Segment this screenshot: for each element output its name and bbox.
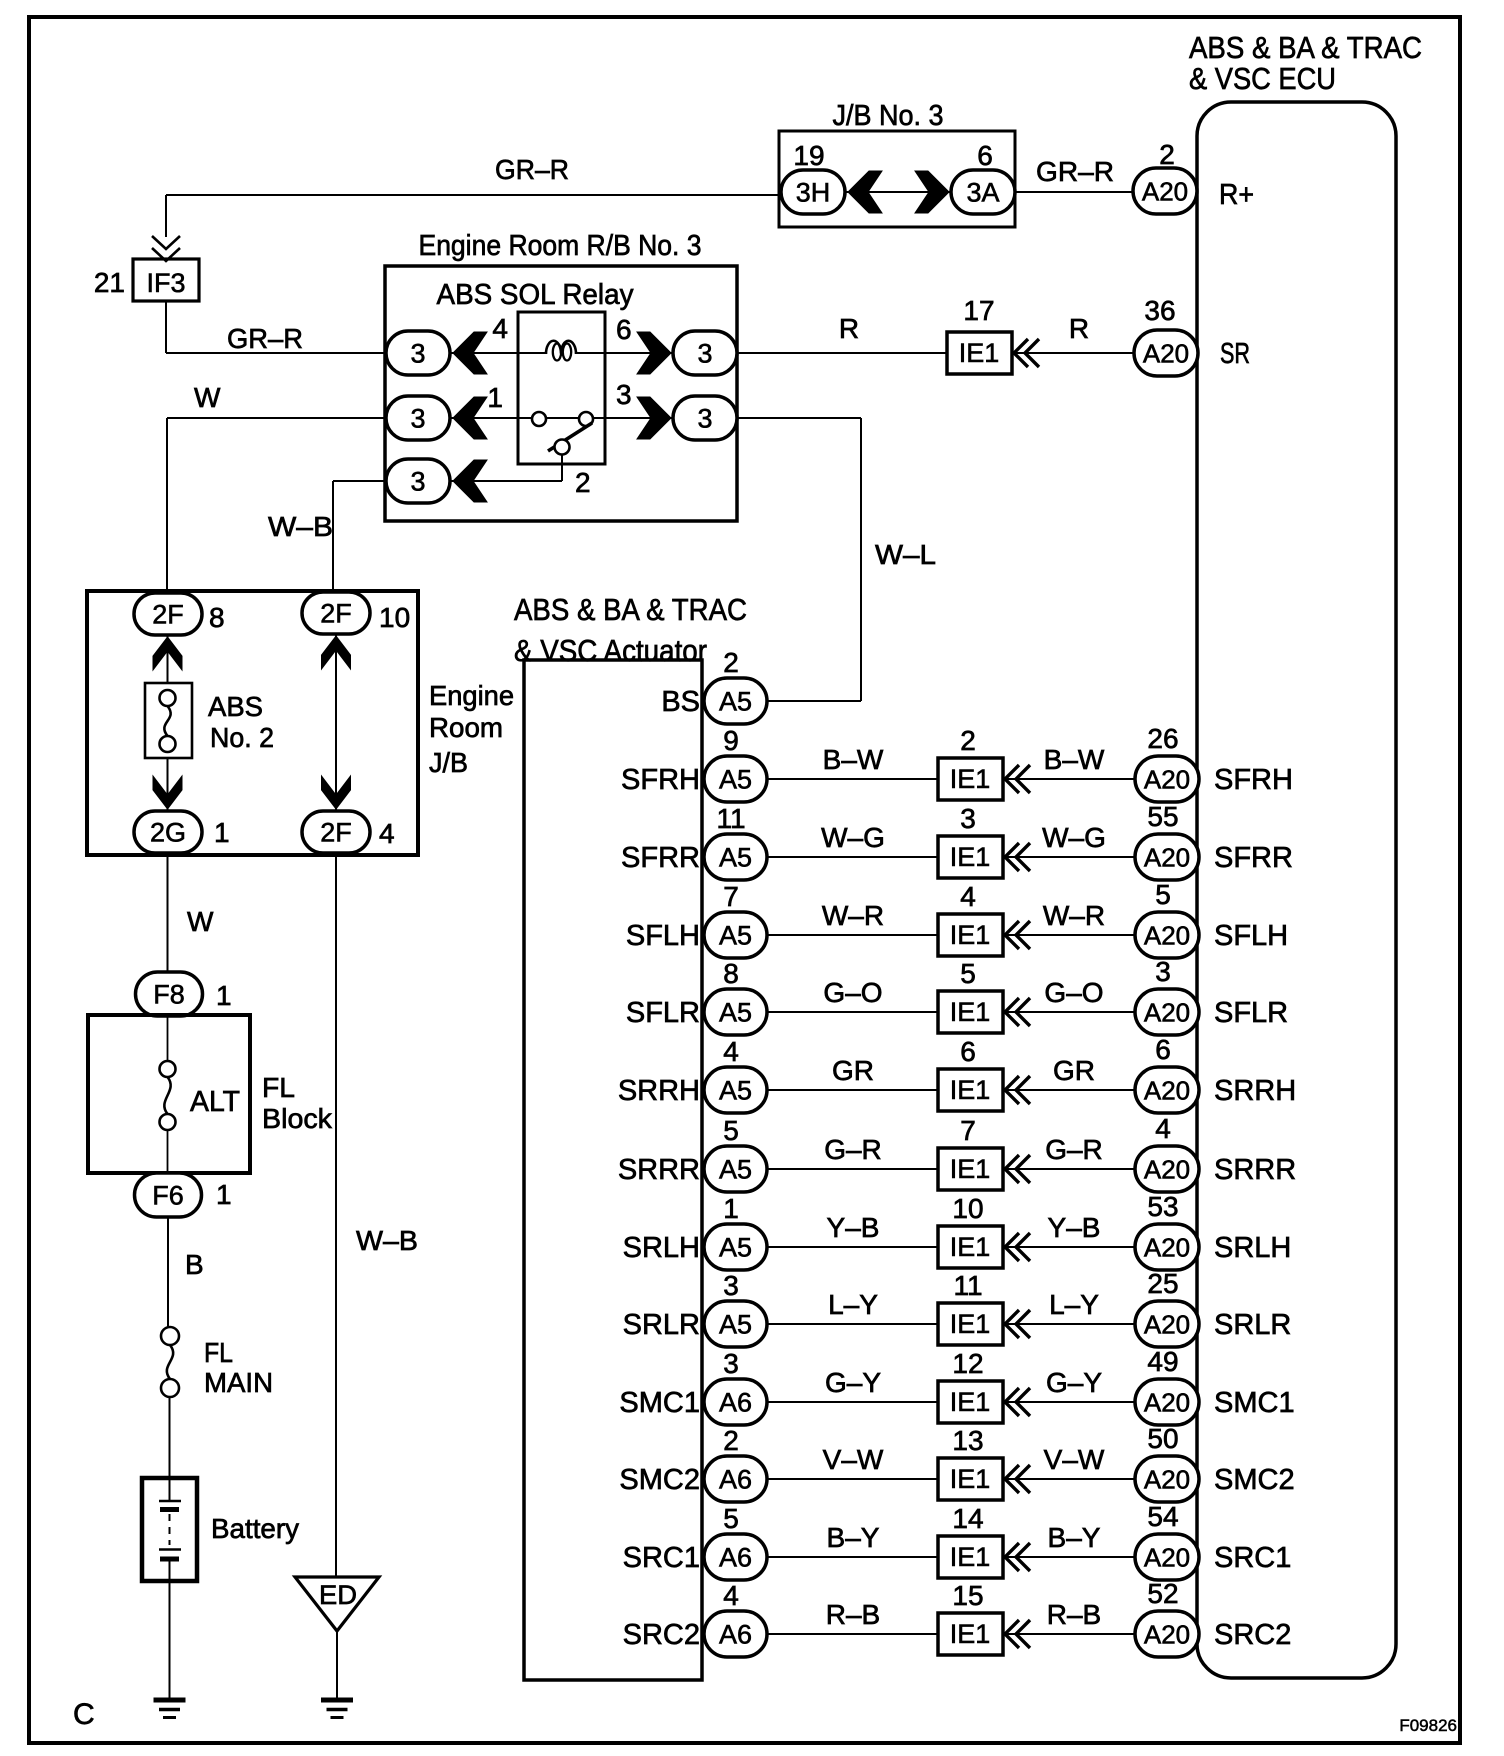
svg-text:2G: 2G xyxy=(150,818,186,848)
svg-text:3: 3 xyxy=(697,404,712,434)
svg-text:3: 3 xyxy=(723,1348,739,1379)
svg-text:J/B: J/B xyxy=(429,747,468,778)
svg-text:ED: ED xyxy=(319,1580,357,1610)
svg-text:G–O: G–O xyxy=(823,977,882,1008)
svg-text:A5: A5 xyxy=(719,998,752,1028)
svg-text:52: 52 xyxy=(1147,1578,1178,1609)
svg-text:SRC2: SRC2 xyxy=(1214,1619,1291,1651)
svg-text:A20: A20 xyxy=(1143,338,1189,368)
svg-text:MAIN: MAIN xyxy=(204,1367,273,1398)
svg-text:A6: A6 xyxy=(719,1543,752,1573)
svg-text:F6: F6 xyxy=(152,1181,184,1211)
svg-text:3H: 3H xyxy=(796,178,831,208)
svg-text:6: 6 xyxy=(616,314,632,345)
svg-text:Y–B: Y–B xyxy=(1048,1212,1101,1243)
svg-text:ABS & BA & TRAC: ABS & BA & TRAC xyxy=(514,592,747,627)
svg-text:3: 3 xyxy=(616,379,632,410)
svg-text:IE1: IE1 xyxy=(950,842,991,872)
svg-text:SFRH: SFRH xyxy=(1214,764,1293,796)
svg-text:W: W xyxy=(194,382,221,413)
svg-text:& VSC Actuator: & VSC Actuator xyxy=(514,633,707,668)
svg-text:SRLH: SRLH xyxy=(623,1232,700,1264)
svg-text:SRLH: SRLH xyxy=(1214,1232,1291,1264)
svg-text:6: 6 xyxy=(1155,1034,1171,1065)
svg-text:9: 9 xyxy=(723,725,739,756)
svg-text:A20: A20 xyxy=(1144,842,1190,872)
svg-text:A6: A6 xyxy=(719,1388,752,1418)
svg-text:36: 36 xyxy=(1144,295,1175,326)
svg-text:SRC1: SRC1 xyxy=(1214,1542,1291,1574)
svg-text:11: 11 xyxy=(716,803,745,834)
svg-text:BS: BS xyxy=(661,686,700,718)
svg-text:7: 7 xyxy=(723,881,739,912)
svg-text:A20: A20 xyxy=(1144,1075,1190,1105)
svg-text:Engine Room R/B No. 3: Engine Room R/B No. 3 xyxy=(419,230,702,262)
svg-text:10: 10 xyxy=(379,602,410,633)
svg-text:IE1: IE1 xyxy=(950,764,991,794)
svg-text:3A: 3A xyxy=(966,178,999,208)
svg-text:15: 15 xyxy=(952,1580,983,1611)
svg-text:A5: A5 xyxy=(719,1155,752,1185)
svg-text:G–R: G–R xyxy=(824,1134,882,1165)
svg-text:Block: Block xyxy=(262,1103,333,1134)
svg-text:5: 5 xyxy=(960,958,976,989)
svg-text:A20: A20 xyxy=(1144,1232,1190,1262)
svg-text:F8: F8 xyxy=(153,980,185,1010)
svg-text:W–R: W–R xyxy=(1043,900,1105,931)
svg-text:W–G: W–G xyxy=(1042,822,1106,853)
svg-text:A20: A20 xyxy=(1142,176,1188,206)
svg-text:6: 6 xyxy=(977,140,993,171)
svg-text:IE1: IE1 xyxy=(950,920,991,950)
svg-text:A20: A20 xyxy=(1144,764,1190,794)
svg-text:55: 55 xyxy=(1147,801,1178,832)
svg-text:3: 3 xyxy=(410,467,425,497)
svg-text:R+: R+ xyxy=(1219,179,1254,211)
svg-text:G–R: G–R xyxy=(1045,1134,1103,1165)
svg-text:A5: A5 xyxy=(719,687,752,717)
svg-text:SMC2: SMC2 xyxy=(1214,1464,1295,1496)
svg-text:IE1: IE1 xyxy=(950,1075,991,1105)
svg-text:W–B: W–B xyxy=(268,511,333,542)
svg-text:No. 2: No. 2 xyxy=(210,722,274,753)
svg-text:IE1: IE1 xyxy=(950,1387,991,1417)
svg-text:GR–R: GR–R xyxy=(495,154,569,185)
svg-text:Room: Room xyxy=(429,712,503,743)
svg-text:R: R xyxy=(1069,313,1089,344)
svg-text:IE1: IE1 xyxy=(950,1619,991,1649)
svg-text:GR: GR xyxy=(1053,1055,1095,1086)
svg-text:SRRH: SRRH xyxy=(1214,1075,1296,1107)
svg-text:B–W: B–W xyxy=(1044,744,1105,775)
svg-text:3: 3 xyxy=(410,404,425,434)
svg-text:W–G: W–G xyxy=(821,822,885,853)
svg-text:4: 4 xyxy=(723,1580,739,1611)
svg-text:R–B: R–B xyxy=(826,1599,880,1630)
svg-text:GR–R: GR–R xyxy=(1036,156,1114,187)
svg-text:& VSC ECU: & VSC ECU xyxy=(1189,61,1336,96)
svg-text:A20: A20 xyxy=(1144,1309,1190,1339)
svg-text:A6: A6 xyxy=(719,1465,752,1495)
svg-text:A20: A20 xyxy=(1144,1154,1190,1184)
svg-text:14: 14 xyxy=(952,1503,983,1534)
svg-text:SFRR: SFRR xyxy=(621,842,700,874)
svg-text:A6: A6 xyxy=(719,1620,752,1650)
svg-text:G–Y: G–Y xyxy=(825,1367,881,1398)
svg-text:5: 5 xyxy=(1155,879,1171,910)
svg-text:SRRR: SRRR xyxy=(1214,1154,1296,1186)
svg-text:25: 25 xyxy=(1147,1268,1178,1299)
svg-text:3: 3 xyxy=(697,339,712,369)
svg-text:6: 6 xyxy=(960,1036,976,1067)
svg-text:GR: GR xyxy=(832,1055,874,1086)
svg-text:GR–R: GR–R xyxy=(227,323,303,354)
svg-text:W–B: W–B xyxy=(356,1225,418,1256)
svg-text:17: 17 xyxy=(963,295,994,326)
svg-text:53: 53 xyxy=(1147,1191,1178,1222)
svg-text:50: 50 xyxy=(1147,1423,1178,1454)
svg-text:3: 3 xyxy=(410,339,425,369)
svg-text:1: 1 xyxy=(216,980,232,1011)
svg-text:4: 4 xyxy=(379,818,395,849)
svg-text:SFLH: SFLH xyxy=(626,920,700,952)
svg-text:B–Y: B–Y xyxy=(827,1522,880,1553)
svg-text:7: 7 xyxy=(960,1115,976,1146)
svg-text:A20: A20 xyxy=(1144,1542,1190,1572)
svg-text:A5: A5 xyxy=(719,843,752,873)
svg-text:26: 26 xyxy=(1147,723,1178,754)
svg-text:B–W: B–W xyxy=(823,744,884,775)
svg-text:1: 1 xyxy=(216,1179,232,1210)
svg-text:1: 1 xyxy=(214,817,230,848)
svg-text:SFRH: SFRH xyxy=(621,764,700,796)
svg-text:3: 3 xyxy=(1155,956,1171,987)
svg-text:R–B: R–B xyxy=(1047,1599,1101,1630)
svg-text:2: 2 xyxy=(723,647,739,678)
svg-text:A20: A20 xyxy=(1144,920,1190,950)
svg-text:IE1: IE1 xyxy=(950,997,991,1027)
svg-text:IE1: IE1 xyxy=(950,1154,991,1184)
svg-text:Engine: Engine xyxy=(429,680,514,711)
svg-text:3: 3 xyxy=(960,803,976,834)
svg-text:49: 49 xyxy=(1147,1346,1178,1377)
svg-text:2: 2 xyxy=(723,1425,739,1456)
svg-text:2F: 2F xyxy=(320,818,352,848)
svg-text:IF3: IF3 xyxy=(146,268,185,298)
svg-text:SFRR: SFRR xyxy=(1214,842,1293,874)
svg-text:B–Y: B–Y xyxy=(1048,1522,1101,1553)
svg-text:G–Y: G–Y xyxy=(1046,1367,1102,1398)
svg-text:4: 4 xyxy=(492,313,508,344)
svg-text:1: 1 xyxy=(723,1193,739,1224)
svg-text:C: C xyxy=(73,1698,95,1731)
svg-text:L–Y: L–Y xyxy=(1049,1289,1099,1320)
svg-text:W–L: W–L xyxy=(875,539,936,570)
svg-text:54: 54 xyxy=(1147,1501,1178,1532)
svg-text:4: 4 xyxy=(723,1036,739,1067)
svg-text:SRRH: SRRH xyxy=(618,1075,700,1107)
svg-text:11: 11 xyxy=(953,1270,982,1301)
svg-text:A20: A20 xyxy=(1144,997,1190,1027)
svg-text:2: 2 xyxy=(960,725,976,756)
svg-text:FL: FL xyxy=(204,1337,233,1368)
svg-text:10: 10 xyxy=(952,1193,983,1224)
svg-text:IE1: IE1 xyxy=(950,1464,991,1494)
svg-text:SFLH: SFLH xyxy=(1214,920,1288,952)
svg-text:SMC1: SMC1 xyxy=(1214,1387,1295,1419)
svg-text:J/B No. 3: J/B No. 3 xyxy=(833,100,944,132)
svg-text:SRLR: SRLR xyxy=(623,1309,700,1341)
svg-text:V–W: V–W xyxy=(823,1444,884,1475)
svg-text:19: 19 xyxy=(793,140,824,171)
svg-text:IE1: IE1 xyxy=(950,1309,991,1339)
svg-text:5: 5 xyxy=(723,1115,739,1146)
svg-text:ABS: ABS xyxy=(208,691,263,722)
svg-text:2: 2 xyxy=(1159,139,1175,170)
svg-text:Battery: Battery xyxy=(211,1513,299,1544)
svg-text:A20: A20 xyxy=(1144,1464,1190,1494)
svg-text:L–Y: L–Y xyxy=(828,1289,878,1320)
svg-text:13: 13 xyxy=(952,1425,983,1456)
svg-text:A5: A5 xyxy=(719,1233,752,1263)
svg-text:W–R: W–R xyxy=(822,900,884,931)
svg-text:F09826: F09826 xyxy=(1399,1716,1457,1735)
svg-text:R: R xyxy=(839,313,859,344)
svg-text:W: W xyxy=(187,906,214,937)
svg-text:21: 21 xyxy=(94,267,125,298)
svg-text:SMC1: SMC1 xyxy=(619,1387,700,1419)
svg-text:A5: A5 xyxy=(719,921,752,951)
svg-text:A5: A5 xyxy=(719,765,752,795)
svg-text:8: 8 xyxy=(209,602,225,633)
svg-text:IE1: IE1 xyxy=(959,338,1000,368)
svg-text:5: 5 xyxy=(723,1503,739,1534)
svg-text:G–O: G–O xyxy=(1044,977,1103,1008)
svg-text:SRRR: SRRR xyxy=(618,1154,700,1186)
svg-text:4: 4 xyxy=(960,881,976,912)
svg-text:SR: SR xyxy=(1220,338,1250,370)
svg-text:Y–B: Y–B xyxy=(827,1212,880,1243)
svg-text:2F: 2F xyxy=(152,600,184,630)
svg-text:SFLR: SFLR xyxy=(626,997,700,1029)
svg-text:12: 12 xyxy=(952,1348,983,1379)
svg-text:A5: A5 xyxy=(719,1076,752,1106)
svg-text:ALT: ALT xyxy=(190,1086,240,1118)
svg-text:B: B xyxy=(185,1249,204,1280)
svg-text:1: 1 xyxy=(487,382,503,413)
svg-text:SMC2: SMC2 xyxy=(619,1464,700,1496)
svg-text:SFLR: SFLR xyxy=(1214,997,1288,1029)
svg-text:2F: 2F xyxy=(320,599,352,629)
svg-text:8: 8 xyxy=(723,958,739,989)
svg-text:ABS & BA & TRAC: ABS & BA & TRAC xyxy=(1189,30,1422,65)
svg-text:2: 2 xyxy=(575,467,591,498)
svg-text:FL: FL xyxy=(262,1072,295,1103)
svg-text:A5: A5 xyxy=(719,1310,752,1340)
svg-text:IE1: IE1 xyxy=(950,1232,991,1262)
svg-text:4: 4 xyxy=(1155,1113,1171,1144)
svg-text:IE1: IE1 xyxy=(950,1542,991,1572)
svg-text:SRLR: SRLR xyxy=(1214,1309,1291,1341)
svg-text:A20: A20 xyxy=(1144,1387,1190,1417)
svg-text:3: 3 xyxy=(723,1270,739,1301)
svg-text:V–W: V–W xyxy=(1044,1444,1105,1475)
svg-text:SRC1: SRC1 xyxy=(623,1542,700,1574)
svg-text:ABS SOL Relay: ABS SOL Relay xyxy=(437,279,634,311)
svg-text:SRC2: SRC2 xyxy=(623,1619,700,1651)
svg-text:A20: A20 xyxy=(1144,1619,1190,1649)
